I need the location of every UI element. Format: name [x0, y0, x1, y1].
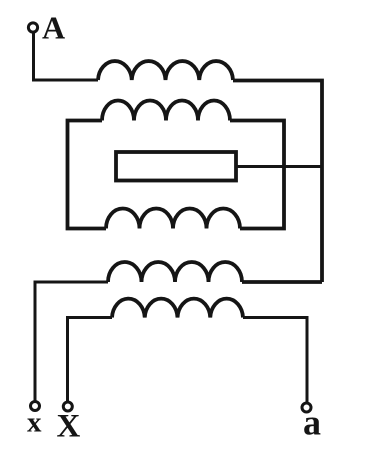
wire L4 left lead and drop to terminal x — [35, 282, 108, 401]
winding L2 — [102, 101, 230, 121]
wire L2 left vertical to L3 left — [68, 121, 107, 229]
svg-text:a: a — [303, 403, 321, 443]
winding L1 — [98, 61, 233, 80]
wire L5 left lead and drop to terminal X — [68, 318, 113, 402]
winding L5 — [112, 299, 243, 318]
wire L5 right lead and drop to terminal a — [243, 318, 307, 403]
winding L3 — [106, 209, 240, 229]
terminal A — [28, 23, 37, 32]
terminal x — [31, 402, 40, 411]
svg-text:X: X — [57, 409, 81, 445]
wire L2 right vertical to L3 right — [230, 121, 284, 229]
svg-text:A: A — [42, 10, 65, 46]
wire from terminal A to winding L1 — [34, 33, 99, 81]
terminal a — [302, 403, 311, 412]
winding L4 — [108, 262, 242, 282]
wire resistor to right bus — [236, 165, 322, 168]
terminal X — [63, 402, 72, 411]
resistor burden R — [116, 152, 236, 181]
wire L4 right lead to right bus — [242, 280, 322, 284]
wire L1 right to node, right-side vertical bus — [233, 81, 322, 283]
svg-text:x: x — [27, 407, 42, 439]
